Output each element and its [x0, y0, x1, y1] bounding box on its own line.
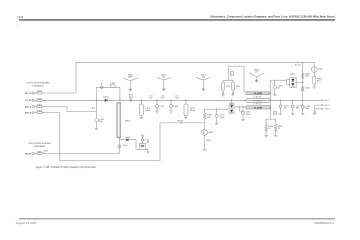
- diode CR450: [105, 99, 108, 102]
- output pin row3: [315, 108, 322, 110]
- transistor Q450 chain: resistor R451: [203, 109, 213, 129]
- capacitor C456a: [242, 107, 252, 119]
- svg-text:12pF: 12pF: [246, 114, 251, 116]
- ground: [291, 114, 294, 115]
- antenna E454: [196, 75, 210, 91]
- wire main line right: [270, 99, 321, 101]
- output pin ANT: [322, 99, 330, 102]
- header rule: [19, 19, 335, 21]
- svg-text:FWD_PW: FWD_PW: [25, 153, 32, 155]
- svg-text:DL 450M: DL 450M: [254, 106, 263, 109]
- wire row1: [42, 92, 76, 94]
- capacitor C452 branch: [156, 100, 166, 111]
- svg-text:D454: D454: [104, 97, 110, 99]
- top rail wire: [76, 62, 314, 93]
- ground: [169, 111, 172, 112]
- capacitor C455: [215, 109, 225, 123]
- svg-text:INTERFACE: INTERFACE: [34, 145, 46, 148]
- ground: [155, 111, 158, 112]
- capacitor C457 below main: [301, 100, 311, 113]
- capacitor C450: [100, 83, 103, 89]
- tee to coil pair: [223, 80, 233, 82]
- ground: [203, 150, 207, 151]
- svg-text:ANT_B: ANT_B: [25, 111, 32, 114]
- ground: [241, 120, 244, 121]
- resistor R457: [275, 124, 284, 135]
- transistor Q450: [202, 130, 214, 150]
- bypass loop wires: [97, 87, 120, 100]
- resistor R452: [313, 77, 323, 87]
- svg-text:VL_B+: VL_B+: [295, 65, 302, 67]
- svg-text:Figure 7-138. HUF4017A Output: Figure 7-138. HUF4017A Output Network (O…: [36, 166, 97, 169]
- resistor R456: [265, 124, 274, 135]
- stripline W451: [246, 98, 271, 102]
- svg-text:INTERFACE: INTERFACE: [33, 84, 45, 87]
- ferrite bead E451: [230, 72, 233, 76]
- inductor L451 branch: [139, 100, 150, 117]
- svg-text:10K: 10K: [305, 76, 309, 78]
- capacitor C456: [301, 87, 311, 91]
- coupler termination wire: [266, 80, 271, 124]
- capacitor C453 branch: [170, 100, 180, 111]
- pin P2 TX_RF: [25, 99, 43, 103]
- inductor L452 branch: [184, 100, 195, 117]
- node junction dots: [96, 100, 304, 102]
- ground: [95, 129, 98, 130]
- svg-text:6816859H01-A: 6816859H01-A: [315, 221, 335, 225]
- inductor L453: [222, 81, 232, 95]
- coupler bar DL450: [246, 92, 271, 95]
- capacitor C460: [118, 145, 128, 148]
- resistor R455: [302, 73, 311, 79]
- svg-text:C452: C452: [160, 106, 166, 108]
- svg-text:Q450: Q450: [208, 132, 214, 134]
- ground: [140, 118, 143, 119]
- pin diode pack D453 (Q452 area): [290, 74, 297, 87]
- inductor L450: [110, 83, 115, 88]
- ground: [273, 95, 276, 96]
- wire row4 long path: [42, 113, 204, 161]
- wire to detector diode: [119, 139, 126, 141]
- interface label block 1: [27, 82, 50, 88]
- diode D451: [126, 139, 128, 142]
- wire: [129, 140, 139, 150]
- pin P4: [25, 111, 43, 115]
- ground: [274, 136, 277, 137]
- svg-text:D452: D452: [125, 137, 131, 139]
- pin diode pack D450: [229, 100, 235, 113]
- ground: [184, 118, 187, 119]
- node stub row3 jog: [42, 106, 97, 111]
- footer rule: [19, 218, 335, 220]
- detector cluster Q451: [139, 135, 149, 153]
- svg-text:ANT1: ANT1: [325, 99, 330, 102]
- svg-text:OUTPUT NETWORK/BOARD: OUTPUT NETWORK/BOARD: [27, 82, 50, 85]
- stripline W450: [117, 102, 131, 137]
- svg-text:10K: 10K: [207, 117, 211, 119]
- capacitor C458: [273, 80, 283, 94]
- svg-text:ANT_SW: ANT_SW: [25, 92, 32, 95]
- connector J450: [311, 62, 323, 76]
- svg-text:12pF: 12pF: [175, 97, 179, 99]
- svg-text:12pF: 12pF: [149, 97, 153, 99]
- wire row5: [42, 152, 119, 154]
- wire from W450 bottom: [118, 138, 120, 154]
- antenna E452: [123, 75, 137, 102]
- svg-text:Schematics, Component Location: Schematics, Component Location Diagrams,…: [210, 14, 335, 18]
- svg-text:C453: C453: [174, 106, 180, 108]
- node label R453: [273, 112, 276, 115]
- ground: [301, 114, 304, 115]
- antenna E453: [157, 75, 171, 91]
- feed block wires: [228, 66, 244, 92]
- antenna E455: [249, 70, 264, 83]
- wire: [107, 99, 245, 101]
- wire into D453: [271, 80, 303, 85]
- svg-text:DL 450M: DL 450M: [254, 92, 263, 95]
- ground: [264, 136, 267, 137]
- svg-text:7-108: 7-108: [17, 15, 24, 19]
- svg-text:ANT2: ANT2: [325, 104, 330, 107]
- pin P5: [25, 151, 49, 156]
- capacitor C471: [292, 100, 302, 113]
- svg-text:E457: E457: [207, 140, 213, 142]
- svg-text:OUTPUT NETWORK/BOARD: OUTPUT NETWORK/BOARD: [28, 142, 51, 145]
- svg-text:C460: C460: [122, 145, 128, 147]
- svg-text:E: E: [231, 74, 232, 76]
- svg-text:56nH: 56nH: [145, 110, 150, 112]
- wire from D450 to bar3: [234, 106, 246, 108]
- registration dot: [17, 25, 18, 26]
- ground: [222, 95, 225, 96]
- svg-text:C456: C456: [305, 87, 311, 89]
- svg-text:E: E: [130, 96, 131, 98]
- ground: [215, 124, 218, 125]
- ground: [313, 109, 316, 115]
- svg-text:W450: W450: [125, 121, 131, 123]
- ground: [231, 95, 234, 96]
- svg-text:TX_RF: TX_RF: [25, 100, 32, 102]
- svg-text:GND1: GND1: [325, 109, 330, 111]
- coupler bar DL451: [246, 106, 271, 110]
- rail drop at right: [302, 62, 304, 100]
- pin P3: [25, 105, 43, 109]
- svg-text:W: 360 mil: W: 360 mil: [253, 101, 263, 103]
- interface label block 2: [28, 142, 51, 148]
- main wire row2: [42, 99, 105, 101]
- node dot: [302, 81, 304, 83]
- wire gate line: [205, 108, 229, 110]
- svg-text:VR450: VR450: [177, 120, 184, 122]
- node VR450 arrow: [177, 120, 184, 124]
- pin P1 ANT_SW_B+: [25, 91, 43, 95]
- ground: [313, 87, 316, 88]
- svg-text:August 24, 2007: August 24, 2007: [16, 221, 37, 225]
- svg-text:68nH: 68nH: [190, 110, 195, 112]
- capacitor C459 branch: [95, 100, 105, 128]
- ground: [279, 114, 282, 115]
- svg-text:ANT_A: ANT_A: [25, 105, 32, 108]
- capacitor C470: [279, 100, 289, 113]
- labels above main line: [149, 95, 179, 99]
- output pin rows: [315, 105, 322, 109]
- svg-text:D451: D451: [290, 74, 296, 76]
- inductor L456: [232, 81, 242, 95]
